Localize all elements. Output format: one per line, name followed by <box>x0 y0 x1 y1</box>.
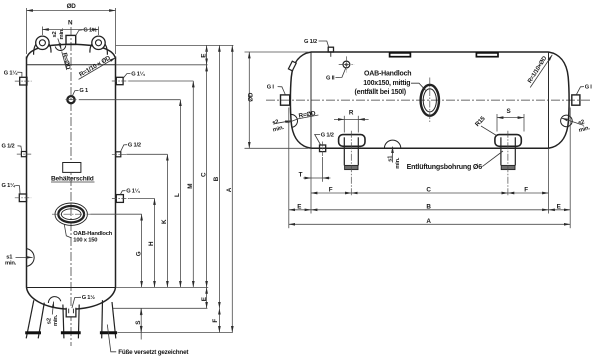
svg-text:min.: min. <box>395 157 401 169</box>
svg-text:100x150, mittig: 100x150, mittig <box>363 80 410 87</box>
fitting G 1 1/4 top-left <box>20 77 27 85</box>
fitting G 1/2 left <box>21 152 26 157</box>
node G 1 center <box>66 96 77 103</box>
dim H (low G1 1/4 height) <box>154 199 156 288</box>
centerline dashes G 1/2 right <box>112 153 126 155</box>
leader G 1/2 bottom <box>315 135 321 146</box>
ext line weld level <box>116 64 208 66</box>
saddle right foot <box>495 135 521 147</box>
ext line top (dome apex level) <box>116 44 234 46</box>
leader Entlueftungsbohrung <box>482 151 503 167</box>
foot plate left <box>25 331 41 334</box>
dim S right foot: ext lines <box>497 114 524 132</box>
svg-text:G: G <box>135 251 142 256</box>
svg-text:T: T <box>299 171 303 178</box>
svg-text:C: C <box>200 172 207 177</box>
leader Fuesse <box>107 325 116 352</box>
s2 min. arrow to dome <box>58 39 61 50</box>
svg-text:F: F <box>329 187 333 194</box>
svg-text:OAB-Handloch: OAB-Handloch <box>73 231 112 237</box>
pad on top shell 2 <box>476 53 498 57</box>
s2 arrow right dome <box>561 118 583 125</box>
centerline dashes G 1 1/4 top-left <box>15 80 32 82</box>
ext line G1/2 level <box>126 153 167 155</box>
leg left foot <box>344 137 358 165</box>
vessel shell walls <box>27 57 116 288</box>
bottom dish <box>27 288 116 310</box>
base plate right foot <box>501 165 515 169</box>
top center fitting G 1 1/2 <box>66 35 76 44</box>
leader OAB-Handloch <box>64 225 71 238</box>
dim T: ext lines <box>311 148 323 213</box>
balloon circle right dome <box>561 115 573 127</box>
centerline dashes G 1 1/4 low-left <box>15 197 31 199</box>
svg-text:F: F <box>524 187 528 194</box>
svg-text:(entfällt bei 150l): (entfällt bei 150l) <box>355 89 406 96</box>
bottom shell thickness bump <box>384 140 400 148</box>
dim B right vessel (tangent length) <box>311 209 549 211</box>
leader G 1/2 right <box>121 145 128 152</box>
svg-text:OAB-Handloch: OAB-Handloch <box>364 70 411 77</box>
svg-text:G I: G I <box>267 84 275 90</box>
shell top line <box>311 51 549 53</box>
R=OD callout left dome <box>287 110 318 123</box>
svg-text:C: C <box>426 187 431 194</box>
top dome <box>27 44 116 58</box>
nozzle G II (top view circle) <box>339 56 354 72</box>
svg-text:ØD: ØD <box>67 3 77 10</box>
leg left <box>26 300 44 338</box>
leader G I right <box>576 87 584 95</box>
right tangent weld line <box>548 52 550 148</box>
svg-text:E: E <box>557 203 561 210</box>
wall thickness bump <box>27 249 35 267</box>
svg-text:F: F <box>212 319 219 323</box>
dim OD right vessel line <box>248 52 250 148</box>
leader G 1/2 left <box>18 146 22 151</box>
svg-text:G 1: G 1 <box>79 88 88 94</box>
svg-text:G 1/2: G 1/2 <box>304 39 317 45</box>
pad on top shell 1 <box>390 53 411 57</box>
dim B (height to dish bottom) <box>218 45 220 308</box>
svg-text:G 1½: G 1½ <box>82 294 96 301</box>
ext right tangent down <box>548 148 550 213</box>
svg-text:E: E <box>200 54 207 58</box>
ext line feet bottom level <box>118 332 233 334</box>
svg-text:B: B <box>426 203 431 210</box>
dim E top (dome height) arrows <box>206 50 208 72</box>
svg-text:s2: s2 <box>47 318 53 324</box>
dim F (foot clearance) <box>218 308 220 332</box>
svg-text:Füße versetzt gezeichnet: Füße versetzt gezeichnet <box>118 349 189 356</box>
s2 min. label top <box>52 28 65 40</box>
base plate left foot <box>345 165 358 169</box>
leader G II <box>336 68 346 77</box>
svg-text:s2: s2 <box>52 31 58 37</box>
dim OD right vessel: ext lines <box>245 52 309 148</box>
leader OAB to manhole <box>411 83 426 90</box>
svg-text:G 1¼: G 1¼ <box>131 71 146 78</box>
svg-text:A: A <box>226 187 233 192</box>
label OAB-Handloch 100x150 <box>73 231 112 244</box>
ext line dish bottom level <box>113 307 207 309</box>
centerline dashes G 1 1/4 top-right <box>112 80 129 82</box>
ext line top G1 1/4 level <box>129 80 194 82</box>
dim K (G1/2 height) <box>166 154 168 287</box>
centerline dashes G 1 1/4 low-right <box>112 198 130 200</box>
lug tab on left dome <box>288 61 296 71</box>
svg-text:R15: R15 <box>474 115 487 128</box>
dim S line <box>497 117 524 119</box>
s1 arrow <box>16 256 33 258</box>
label OAB-Handloch block <box>355 70 412 96</box>
manhole centerline <box>52 213 91 215</box>
leader G 1/2 top <box>319 41 329 47</box>
foot plate right <box>100 331 117 334</box>
dim N: dimension line <box>42 29 98 31</box>
ext line manhole level <box>91 213 142 215</box>
centerline dashes G 1/2 left <box>17 153 31 155</box>
leader G 1 1/4 low-left <box>15 185 20 193</box>
centerline G 1/2 bottom <box>322 142 324 158</box>
dome thickness bump left <box>291 114 298 127</box>
leader G 1 1/2 bottom <box>72 297 81 308</box>
dim M (top G1 1/4 height) <box>192 81 194 287</box>
main centerline horizontal <box>266 99 591 101</box>
fitting G I left <box>281 95 290 105</box>
dim E bottom (dish height) <box>206 287 208 308</box>
leader G 1 1/4 low-right <box>120 191 125 195</box>
ext line G1 node level <box>79 99 181 101</box>
manhole oval left vessel <box>55 203 87 225</box>
svg-text:S: S <box>507 108 511 115</box>
dome thickness bump <box>55 45 66 50</box>
svg-text:G 1½: G 1½ <box>83 27 97 34</box>
dim S arrows <box>140 309 142 333</box>
R=OD radius callout (steep) <box>61 52 72 71</box>
dish thickness bump <box>48 297 60 303</box>
svg-text:N: N <box>68 20 73 27</box>
svg-text:min.: min. <box>5 261 17 267</box>
svg-text:G 1/2: G 1/2 <box>128 143 141 149</box>
s2 min. dish callout <box>47 314 59 326</box>
fitting G 1/2 bottom <box>320 145 326 152</box>
svg-text:S: S <box>135 321 142 325</box>
svg-text:A: A <box>426 218 431 225</box>
label Behaelterschild <box>51 176 95 183</box>
leader G I left <box>278 87 286 95</box>
fitting G 1 1/4 low-left <box>19 194 26 202</box>
R15 callout <box>474 115 497 136</box>
svg-text:100 x 150: 100 x 150 <box>73 237 97 243</box>
ext lines E rows (dome extremes) <box>289 108 570 229</box>
fitting G 1/2 right <box>116 152 121 157</box>
fitting G 1 1/4 low-right <box>116 195 123 203</box>
saddle left foot <box>339 135 365 147</box>
leader G 1 <box>72 90 78 96</box>
manhole oval right vessel <box>421 85 439 116</box>
leg right <box>102 300 116 338</box>
leg center <box>63 305 79 339</box>
svg-text:L: L <box>174 193 181 197</box>
fitting G I right <box>572 95 580 105</box>
fitting G 1/2 top <box>328 47 333 57</box>
dim R arrows (outside) <box>334 118 369 120</box>
s1 min. wall callout left <box>5 255 17 267</box>
dim C (shell height) <box>206 45 208 287</box>
svg-text:R=1/10×ØD: R=1/10×ØD <box>527 55 549 85</box>
dim F right (foot to tangent) <box>508 192 549 194</box>
dim A (total height) <box>231 45 233 332</box>
dim S (foot height at leg) <box>140 308 142 339</box>
dim E right (dome depth) <box>549 209 571 211</box>
manhole vertical centerline <box>429 78 431 124</box>
svg-text:M: M <box>187 184 194 189</box>
right dome <box>549 52 570 148</box>
dim L (G1 node height) <box>179 100 181 288</box>
lifting lug left <box>34 36 51 55</box>
s2 dish arrow <box>52 302 53 315</box>
dim F left (tangent to foot) <box>311 192 351 194</box>
svg-text:B: B <box>213 176 220 181</box>
svg-text:G 1¼: G 1¼ <box>126 187 141 194</box>
svg-text:K: K <box>161 219 168 224</box>
svg-text:G I: G I <box>585 85 593 91</box>
lifting lug right <box>90 36 108 55</box>
svg-text:G 1/2: G 1/2 <box>2 143 15 149</box>
svg-text:G 1¼: G 1¼ <box>2 182 17 189</box>
dim OD top: dimension line <box>27 10 116 12</box>
dim OD top: extension lines <box>27 8 116 54</box>
fitting G 1 1/4 top-right <box>116 77 123 84</box>
svg-text:ØD: ØD <box>248 92 255 102</box>
dim C (foot to foot) <box>351 192 508 194</box>
svg-text:E: E <box>297 203 301 210</box>
dim N: extension lines <box>42 27 98 36</box>
svg-text:R: R <box>349 109 354 116</box>
svg-text:Entlüftungsbohrung Ø6: Entlüftungsbohrung Ø6 <box>407 163 483 171</box>
s2 arrow left dome <box>274 121 292 124</box>
ext line bottom weld level <box>116 286 208 288</box>
dim E left (dome depth) <box>289 209 311 211</box>
ext line low G1 1/4 level <box>130 198 155 200</box>
svg-text:H: H <box>148 241 155 246</box>
dim A right vessel (total length) <box>289 223 570 225</box>
shell bottom line <box>311 147 549 149</box>
R=1/10xOD callout right dome <box>527 55 552 88</box>
s1 min. callout bottom <box>388 155 402 169</box>
nameplate rect Behaelterschild <box>63 163 81 173</box>
svg-text:G 1¼: G 1¼ <box>4 69 19 76</box>
dim G (manhole height) <box>141 214 143 287</box>
svg-text:E: E <box>201 297 208 301</box>
dim T arrows (outside) <box>303 177 330 179</box>
centerline left foot <box>350 131 352 197</box>
R=1/10 x OD knuckle callout <box>78 54 116 79</box>
svg-text:Behälterschild: Behälterschild <box>51 176 94 183</box>
bottom fitting G 1 1/2 <box>66 308 76 317</box>
bottom fitting inner bore <box>69 309 74 314</box>
dim R left foot: ext lines <box>344 116 358 133</box>
leader G 1 1/4 top-right <box>123 74 130 78</box>
left tangent weld line <box>310 52 312 148</box>
s2 min. callout right dome <box>578 119 591 134</box>
top weld seam line <box>27 64 116 66</box>
left dome <box>290 52 311 148</box>
leader G 1 1/4 top-left <box>17 72 22 77</box>
s1 arrow bottom <box>392 147 394 163</box>
svg-text:G II: G II <box>326 76 335 82</box>
leader G 1 1/2 top <box>76 30 83 36</box>
leg right foot <box>501 137 515 165</box>
svg-text:R=1/10 × ØD: R=1/10 × ØD <box>78 54 112 78</box>
svg-text:min.: min. <box>53 314 59 326</box>
centerline right foot <box>507 131 509 197</box>
svg-text:G 1/2: G 1/2 <box>321 132 334 138</box>
vessel centerline <box>70 27 72 346</box>
foot plate center <box>61 331 81 334</box>
bottom weld seam line <box>27 287 116 289</box>
s2 min. callout left dome <box>272 119 285 133</box>
